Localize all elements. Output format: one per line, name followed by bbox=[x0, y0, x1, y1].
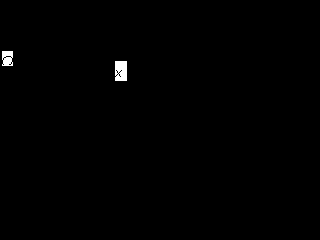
x: backslash stroke (top-left to bottom-right) bbox=[116, 70, 117, 71]
white formula box B (right edge) bbox=[115, 61, 127, 81]
italic letter x in box B bbox=[115, 70, 122, 77]
x: slash stroke (bottom-left to top-right) bbox=[121, 70, 122, 71]
circle glyph in box A bbox=[2, 56, 13, 65]
white formula box A (left edge) bbox=[2, 51, 13, 66]
